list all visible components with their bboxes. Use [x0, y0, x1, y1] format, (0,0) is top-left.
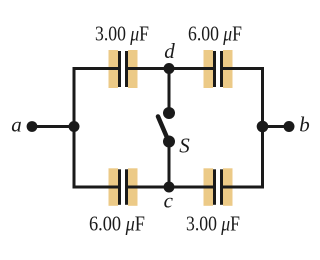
- wire bottom from left bus to C3 left plate: [74, 186, 120, 189]
- wire top from C1 right plate to node d and to C2 left plate: [126, 67, 215, 70]
- svg-text:6.00 μF: 6.00 μF: [188, 22, 242, 46]
- switch S lower pivot dot: [163, 136, 175, 148]
- wire bottom from C3 right plate to node c and to C4 left plate: [126, 186, 215, 189]
- svg-text:6.00 μF: 6.00 μF: [89, 212, 145, 236]
- svg-text:3.00 μF: 3.00 μF: [95, 22, 149, 46]
- wire top from C2 right plate to right bus: [221, 67, 264, 70]
- wire bottom from C4 right plate to right bus: [221, 186, 264, 189]
- svg-text:a: a: [11, 113, 22, 137]
- terminal b dot: [284, 121, 295, 132]
- node d junction dot: [164, 63, 175, 74]
- terminal a dot: [27, 121, 38, 132]
- switch S upper contact dot: [163, 107, 175, 119]
- wire left bus vertical: [73, 67, 76, 189]
- capacitor C2 plates tan (6.00 uF top-right): [204, 50, 233, 88]
- wire right bus to terminal b: [263, 125, 289, 128]
- svg-text:c: c: [164, 189, 174, 213]
- capacitor C3 plates tan (6.00 uF bottom-left): [109, 168, 138, 206]
- capacitor C1 plates tan (3.00 uF top-left): [109, 50, 138, 88]
- capacitor C2 plate lines: [215, 51, 222, 87]
- capacitor C4 plate lines: [215, 169, 222, 205]
- capacitor C3 plate lines: [120, 169, 127, 205]
- left bus junction dot: [69, 121, 80, 132]
- right bus junction dot: [257, 121, 269, 133]
- svg-text:3.00 μF: 3.00 μF: [186, 212, 240, 236]
- wire middle stub from switch bottom to node c: [168, 142, 171, 188]
- svg-text:b: b: [299, 113, 310, 137]
- svg-text:d: d: [164, 39, 175, 63]
- switch S lever: [158, 117, 169, 142]
- wire terminal a to left bus: [32, 125, 74, 128]
- wire middle stub from node d to switch top: [168, 69, 171, 114]
- node c junction dot: [164, 182, 175, 193]
- capacitor C1 plate lines: [120, 51, 127, 87]
- capacitor C4 plates tan (3.00 uF bottom-right): [204, 168, 233, 206]
- wire top from left bus to C1 left plate: [74, 67, 120, 70]
- svg-text:S: S: [179, 134, 190, 158]
- wire right bus vertical: [261, 67, 264, 189]
